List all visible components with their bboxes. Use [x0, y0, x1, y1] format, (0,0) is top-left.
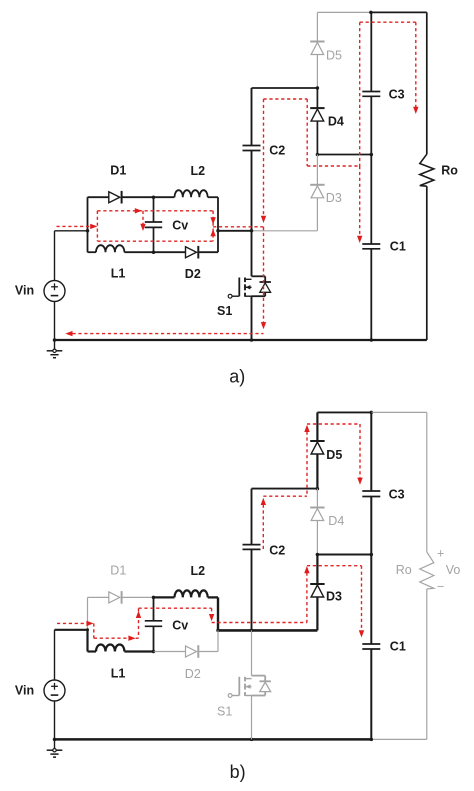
current path: C3 loop left edge (a) [359, 22, 361, 166]
node: D4/D5 junction (a) [316, 86, 320, 90]
wire: C3 branch upper (a) [370, 12, 372, 91]
wire: C2/S1 vertical middle (a) [251, 151, 253, 277]
wire: D5 cathode lead (b) [316, 412, 318, 441]
diode D1 (a) [109, 192, 120, 203]
wire: top rail right (b), gray [371, 411, 427, 413]
svg-text:C1: C1 [390, 240, 406, 254]
current path: D4 loop vertical (a) [306, 99, 308, 166]
current path: cell loop top edge (a) [97, 210, 213, 212]
svg-text:L2: L2 [191, 564, 206, 578]
svg-text:−: − [437, 580, 444, 594]
svg-text:D4: D4 [328, 514, 344, 528]
node: block output junction (a) [216, 229, 220, 233]
wire: mid rail (b) [218, 629, 317, 632]
wire: C3 branch lower (a) [370, 96, 372, 154]
wire: block right vertical lower (b), gray [217, 630, 219, 651]
diode D5 (a) [310, 41, 324, 43]
wire: block left vertical (a) [87, 197, 89, 252]
transistor S1 (a) [252, 275, 266, 277]
current path: L1 to Cv corner (b) [136, 637, 139, 639]
node: block top-center junction (b) [152, 596, 156, 600]
node: top-rail junction (a) [369, 11, 373, 15]
wire: center node to L2 (b) [154, 596, 175, 598]
wire: C1 branch lower (a) [370, 249, 372, 340]
current path: cell loop bottom edge (a) [97, 240, 213, 242]
node: D4 bottom junction (a) [316, 153, 320, 157]
current path: output overlay (b) [212, 622, 307, 624]
current path: C3 loop top edge (a) [360, 21, 416, 23]
wire: block output to switch line (a) [218, 230, 252, 232]
wire: C2/S1 vertical upper (a) [251, 88, 253, 146]
node: bottom rail at C1 (b) [370, 738, 374, 742]
wire: Vin top lead (a) [54, 231, 56, 281]
ground (a) [54, 340, 56, 351]
current path: C2 discharge vertical upper (a) [263, 99, 265, 217]
node: D4/D3 junction (b) [316, 553, 320, 557]
svg-text:C3: C3 [389, 487, 405, 501]
wire: D4 anode lead (b), gray [316, 521, 318, 555]
wire: bottom rail gray part (b) [371, 738, 427, 740]
wire: top rail right (a) [371, 11, 427, 13]
wire: C1 branch lower (b) [370, 649, 372, 739]
wire: C1 branch upper (b) [370, 555, 372, 645]
wire: C2 vertical lower (b) [251, 549, 253, 630]
node: bottom rail at Vin (a) [53, 338, 57, 342]
wire: D5 anode lead (b) [316, 454, 318, 489]
wire: C1 branch upper (a) [370, 155, 372, 245]
wire: Cv top lead (b) [153, 597, 155, 620]
wire: Vin bottom lead (b) [54, 701, 56, 739]
svg-text:D3: D3 [326, 590, 342, 604]
wire: center node to D2 (b), gray [154, 651, 186, 653]
svg-text:+: + [437, 547, 444, 561]
node: block bottom-center junction (b) [152, 650, 156, 654]
capacitor C1 (a) [362, 243, 380, 245]
inductor L1 (a) [96, 245, 124, 252]
svg-text:Cv: Cv [172, 219, 188, 233]
wire: D2 to block right (b), gray [199, 651, 218, 653]
wire: D1 to center node (a) [122, 196, 153, 198]
svg-text:C3: C3 [389, 87, 405, 101]
current path: D5 loop top edge (b) [307, 423, 360, 425]
wire: D3 cathode lead (a), gray [316, 155, 318, 185]
inductor L1 (b) [96, 645, 124, 652]
wire: bottom rail (a) [55, 339, 427, 341]
wire: C2 top horizontal (a) [252, 87, 318, 89]
wire: C3 branch upper (b) [370, 412, 372, 491]
svg-text:L2: L2 [191, 164, 206, 178]
current path: out of C2 (b) [262, 505, 264, 550]
svg-text:D4: D4 [328, 115, 344, 129]
svg-text:Cv: Cv [172, 619, 188, 633]
current path: D5 loop right edge into C3 (b) [359, 424, 361, 478]
wire: block right vertical (a) [217, 197, 219, 252]
wire: D3 anode lead (b) [316, 597, 318, 630]
svg-text:C2: C2 [269, 543, 285, 557]
capacitor C3 (a) [362, 91, 380, 93]
svg-text:C1: C1 [390, 640, 406, 654]
current path: over Cv (b) [139, 607, 212, 609]
wire: C2 top horizontal (b) [252, 488, 318, 490]
wire: Vin to block (b) [55, 629, 88, 631]
resistor Ro (b), gray [420, 552, 434, 589]
wire: block bottom-left segment (b) [88, 650, 97, 652]
wire: L1 to center node (b) [124, 650, 153, 652]
capacitor C2 (a) [243, 145, 261, 147]
wire: Cv bottom lead (b) [153, 626, 155, 651]
wire: Cv top lead (a) [153, 197, 155, 222]
wire: center node to D2 (a) [154, 251, 186, 253]
wire: right rail upper (a) [426, 12, 428, 154]
svg-text:D2: D2 [185, 667, 201, 681]
wire: block left vertical lower (b) [86, 630, 88, 652]
wire: D4 cathode lead (a) [316, 88, 318, 108]
wire: S1 drain lead (b), gray [251, 630, 253, 675]
node: bottom rail at Vin (b) [53, 738, 57, 742]
capacitor C1 (b) [362, 643, 380, 645]
current path: cell loop left edge (a) [96, 211, 98, 241]
node: D5/D4 junction (b) [316, 487, 320, 491]
current path: D3 loop top edge (b) [307, 565, 362, 567]
wire: right rail lower (a) [426, 186, 428, 340]
wire: top rail left (b) [317, 411, 371, 413]
node: bottom rail at C1 (a) [370, 338, 374, 342]
wire: Vin bottom lead (a) [54, 302, 56, 341]
transistor S1 (b), gray [252, 675, 266, 677]
wire: block top-left segment (b), gray [88, 596, 109, 598]
diode D4 (a) [310, 107, 324, 109]
current path: along L1 (b) [94, 637, 129, 639]
diode D3 (b) [310, 583, 324, 585]
svg-text:D3: D3 [326, 191, 342, 205]
svg-text:S1: S1 [217, 704, 232, 718]
current path: into C1 (a) [359, 166, 361, 237]
wire: C2 vertical upper (b) [251, 489, 253, 545]
current path: drop to L1 leg (b) [93, 623, 95, 638]
svg-text:L1: L1 [111, 667, 126, 681]
capacitor C2 (b) [243, 544, 261, 546]
wire: junction to C-line (b) [317, 554, 371, 556]
wire: D2 to block right (a) [199, 251, 218, 253]
wire: L2 to corner (b) [208, 596, 218, 598]
wire: bottom rail (b) [55, 738, 372, 741]
wire: center node to L2 (a) [154, 196, 175, 198]
node: block top-center junction (a) [152, 195, 156, 199]
node: block bottom-center junction (a) [152, 250, 156, 254]
current path: D4 loop horizontal (a) [307, 165, 360, 167]
diode D5 (b) [310, 440, 324, 442]
source Vin (b) [44, 680, 65, 701]
current path: C2 to D5 leg horizontal (b) [263, 495, 307, 497]
diode D1 (b), gray [109, 592, 120, 603]
current path: output overlay (a) [213, 226, 263, 228]
diode D4 (b), gray [310, 507, 324, 509]
current path: D3 loop right edge into C1 (b) [361, 566, 363, 631]
svg-text:D5: D5 [326, 49, 342, 63]
wire: D5 anode to node (a) [316, 55, 318, 89]
svg-text:Vo: Vo [446, 563, 461, 577]
capacitor Cv (b) [145, 620, 162, 622]
wire: top rail left (a), gray [317, 11, 371, 13]
wire: D3 cathode lead (b) [316, 555, 318, 585]
current path: input line into cell (a) [57, 225, 95, 227]
svg-text:D1: D1 [110, 163, 126, 177]
node: bottom rail at S1 (a) [250, 338, 254, 342]
current path: D5 loop left edge (b) [306, 432, 308, 497]
svg-text:D2: D2 [185, 267, 201, 281]
wire: D1 to center node (b), gray [122, 596, 153, 598]
diode D2 (b), gray [186, 646, 197, 657]
wire: S1 source lead (b), gray [251, 696, 253, 740]
wire: L2 to block right (a) [208, 196, 218, 198]
wire: L1 to center node (a) [124, 251, 153, 253]
node: mid rail at C2/S1 (b) [250, 629, 254, 633]
current path: D3 loop left edge (b) [306, 573, 308, 623]
svg-text:a): a) [229, 366, 245, 386]
node: junction at C3 line (a) [370, 153, 374, 157]
current path: down to output (b) [211, 608, 213, 614]
inductor L2 (a) [175, 190, 208, 197]
wire: block left vertical upper (b), gray [87, 597, 89, 629]
node: mid rail at block output (b) [216, 629, 220, 633]
current path: C3 loop right edge (a) [415, 22, 417, 107]
wire: D4 cathode lead (b), gray [316, 489, 318, 508]
current path: cell loop right edge (a) [212, 211, 214, 241]
wire: D4 anode lead (a) [316, 121, 318, 154]
current path: into Cv (a) [142, 211, 144, 224]
capacitor C3 (b) [362, 490, 380, 492]
wire: D4 bottom to C3 line (a) [317, 154, 371, 156]
svg-text:b): b) [230, 762, 246, 782]
wire: block bottom-left segment (a) [88, 251, 97, 253]
wire: C3 branch lower (b) [370, 497, 372, 555]
svg-text:Ro: Ro [396, 563, 412, 577]
node: bottom rail at S1 (b) [250, 738, 254, 742]
svg-text:Vin: Vin [15, 683, 34, 697]
node: block input junction (b) [86, 628, 89, 631]
wire: mid node to D3 (a), gray [252, 230, 318, 232]
current path: switch leg (a) [263, 227, 265, 323]
node: top-rail junction (b) [370, 411, 374, 415]
svg-text:S1: S1 [217, 304, 232, 318]
wire: D5 top lead (a) [316, 12, 318, 41]
svg-text:C2: C2 [269, 143, 285, 157]
svg-text:D5: D5 [326, 448, 342, 462]
wire: right rail lower (b), gray [426, 589, 428, 739]
wire: block top-left segment (a) [88, 196, 109, 198]
current path: return rail (a) [73, 333, 264, 335]
node: mid junction at switch line (a) [250, 229, 254, 233]
resistor Ro (a) [420, 154, 434, 186]
current path: input line (b) [57, 622, 91, 624]
wire: S1 source to bottom rail (a) [251, 296, 253, 340]
svg-text:Vin: Vin [15, 283, 34, 297]
svg-text:L1: L1 [111, 266, 126, 280]
wire: block right vertical upper (b) [217, 597, 219, 630]
source Vin (a) [44, 281, 65, 302]
wire: right rail upper (b), gray [426, 412, 428, 552]
wire: D3 anode lead (a), gray [316, 198, 318, 231]
ground (b) [54, 739, 56, 750]
node: junction at C3/C1 line (b) [370, 553, 374, 557]
current path: C2 loop top (a) [264, 98, 308, 100]
inductor L2 (b) [175, 590, 208, 597]
capacitor Cv (a) [145, 221, 162, 223]
diode D3 (a), gray [310, 184, 324, 186]
wire: Vin to block (a) [55, 230, 88, 232]
wire: Vin top lead (b) [54, 630, 56, 680]
svg-text:D1: D1 [110, 564, 126, 578]
svg-text:Ro: Ro [441, 164, 458, 178]
node: block input junction (a) [86, 229, 90, 233]
diode D2 (a) [186, 247, 197, 258]
wire: Cv bottom lead (a) [153, 227, 155, 252]
current path: up at Cv (b) [138, 608, 140, 638]
